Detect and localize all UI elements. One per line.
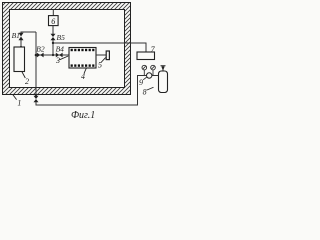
node junction tank top — [20, 46, 22, 48]
valve B3 (bottom) — [34, 96, 39, 99]
valve B2 — [37, 53, 40, 58]
node junction riser/pipe — [35, 54, 38, 57]
wire main pipe — [36, 54, 69, 56]
reactor heater top row — [71, 49, 95, 51]
label 2 pointer — [22, 72, 26, 79]
node dot above valve B3 — [35, 94, 37, 96]
label 5 pointer — [101, 58, 106, 63]
label 3 pointer — [60, 56, 69, 60]
wire box6 to valve B5 — [52, 26, 54, 34]
electrode 5 — [106, 51, 109, 60]
svg-text:Фиг.1: Фиг.1 — [71, 110, 95, 120]
chamber wall 1 (hatched frame) — [3, 3, 131, 95]
svg-text:9: 9 — [139, 78, 143, 87]
svg-text:6: 6 — [51, 17, 55, 26]
valve B5 — [51, 34, 56, 37]
svg-text:2: 2 — [25, 77, 29, 86]
bottle 8 — [159, 71, 168, 93]
svg-text:8: 8 — [143, 87, 147, 96]
reactor heater bottom row — [71, 64, 95, 66]
node junction B5/feed — [52, 42, 54, 44]
svg-text:В2: В2 — [36, 44, 45, 53]
wire bottom gas line — [36, 76, 147, 106]
wire riser x36 — [35, 32, 37, 96]
reactor 3 — [69, 48, 96, 69]
wire reactor stub to electrode — [96, 54, 106, 56]
bottle 8 valve — [161, 66, 166, 71]
label 1 pointer — [13, 95, 17, 100]
wire B5 riser to main pipe — [52, 40, 54, 55]
gauge left — [142, 65, 147, 70]
wire regulator to bottle — [152, 75, 159, 77]
valve B1 — [19, 33, 24, 37]
label 8 pointer — [147, 87, 154, 90]
valve B4 — [56, 53, 59, 58]
box 6 — [49, 16, 59, 26]
svg-text:В4: В4 — [56, 44, 65, 53]
label 4 pointer — [84, 68, 86, 73]
tank 2 — [14, 47, 25, 72]
label 9 pointer — [143, 77, 147, 80]
wire feed line to box 7 — [53, 43, 146, 52]
svg-text:В5: В5 — [57, 33, 66, 42]
wire B1 loop — [21, 32, 36, 47]
svg-text:4: 4 — [81, 72, 85, 81]
svg-text:5: 5 — [98, 61, 102, 70]
gauge right — [151, 65, 156, 70]
wire box6 to top wall — [52, 10, 54, 16]
node junction B5/pipe — [52, 54, 54, 56]
svg-text:1: 1 — [17, 98, 21, 107]
svg-text:В1: В1 — [12, 31, 20, 40]
box 7 — [137, 52, 155, 60]
regulator 9 body — [147, 73, 152, 78]
svg-text:3: 3 — [55, 56, 60, 65]
